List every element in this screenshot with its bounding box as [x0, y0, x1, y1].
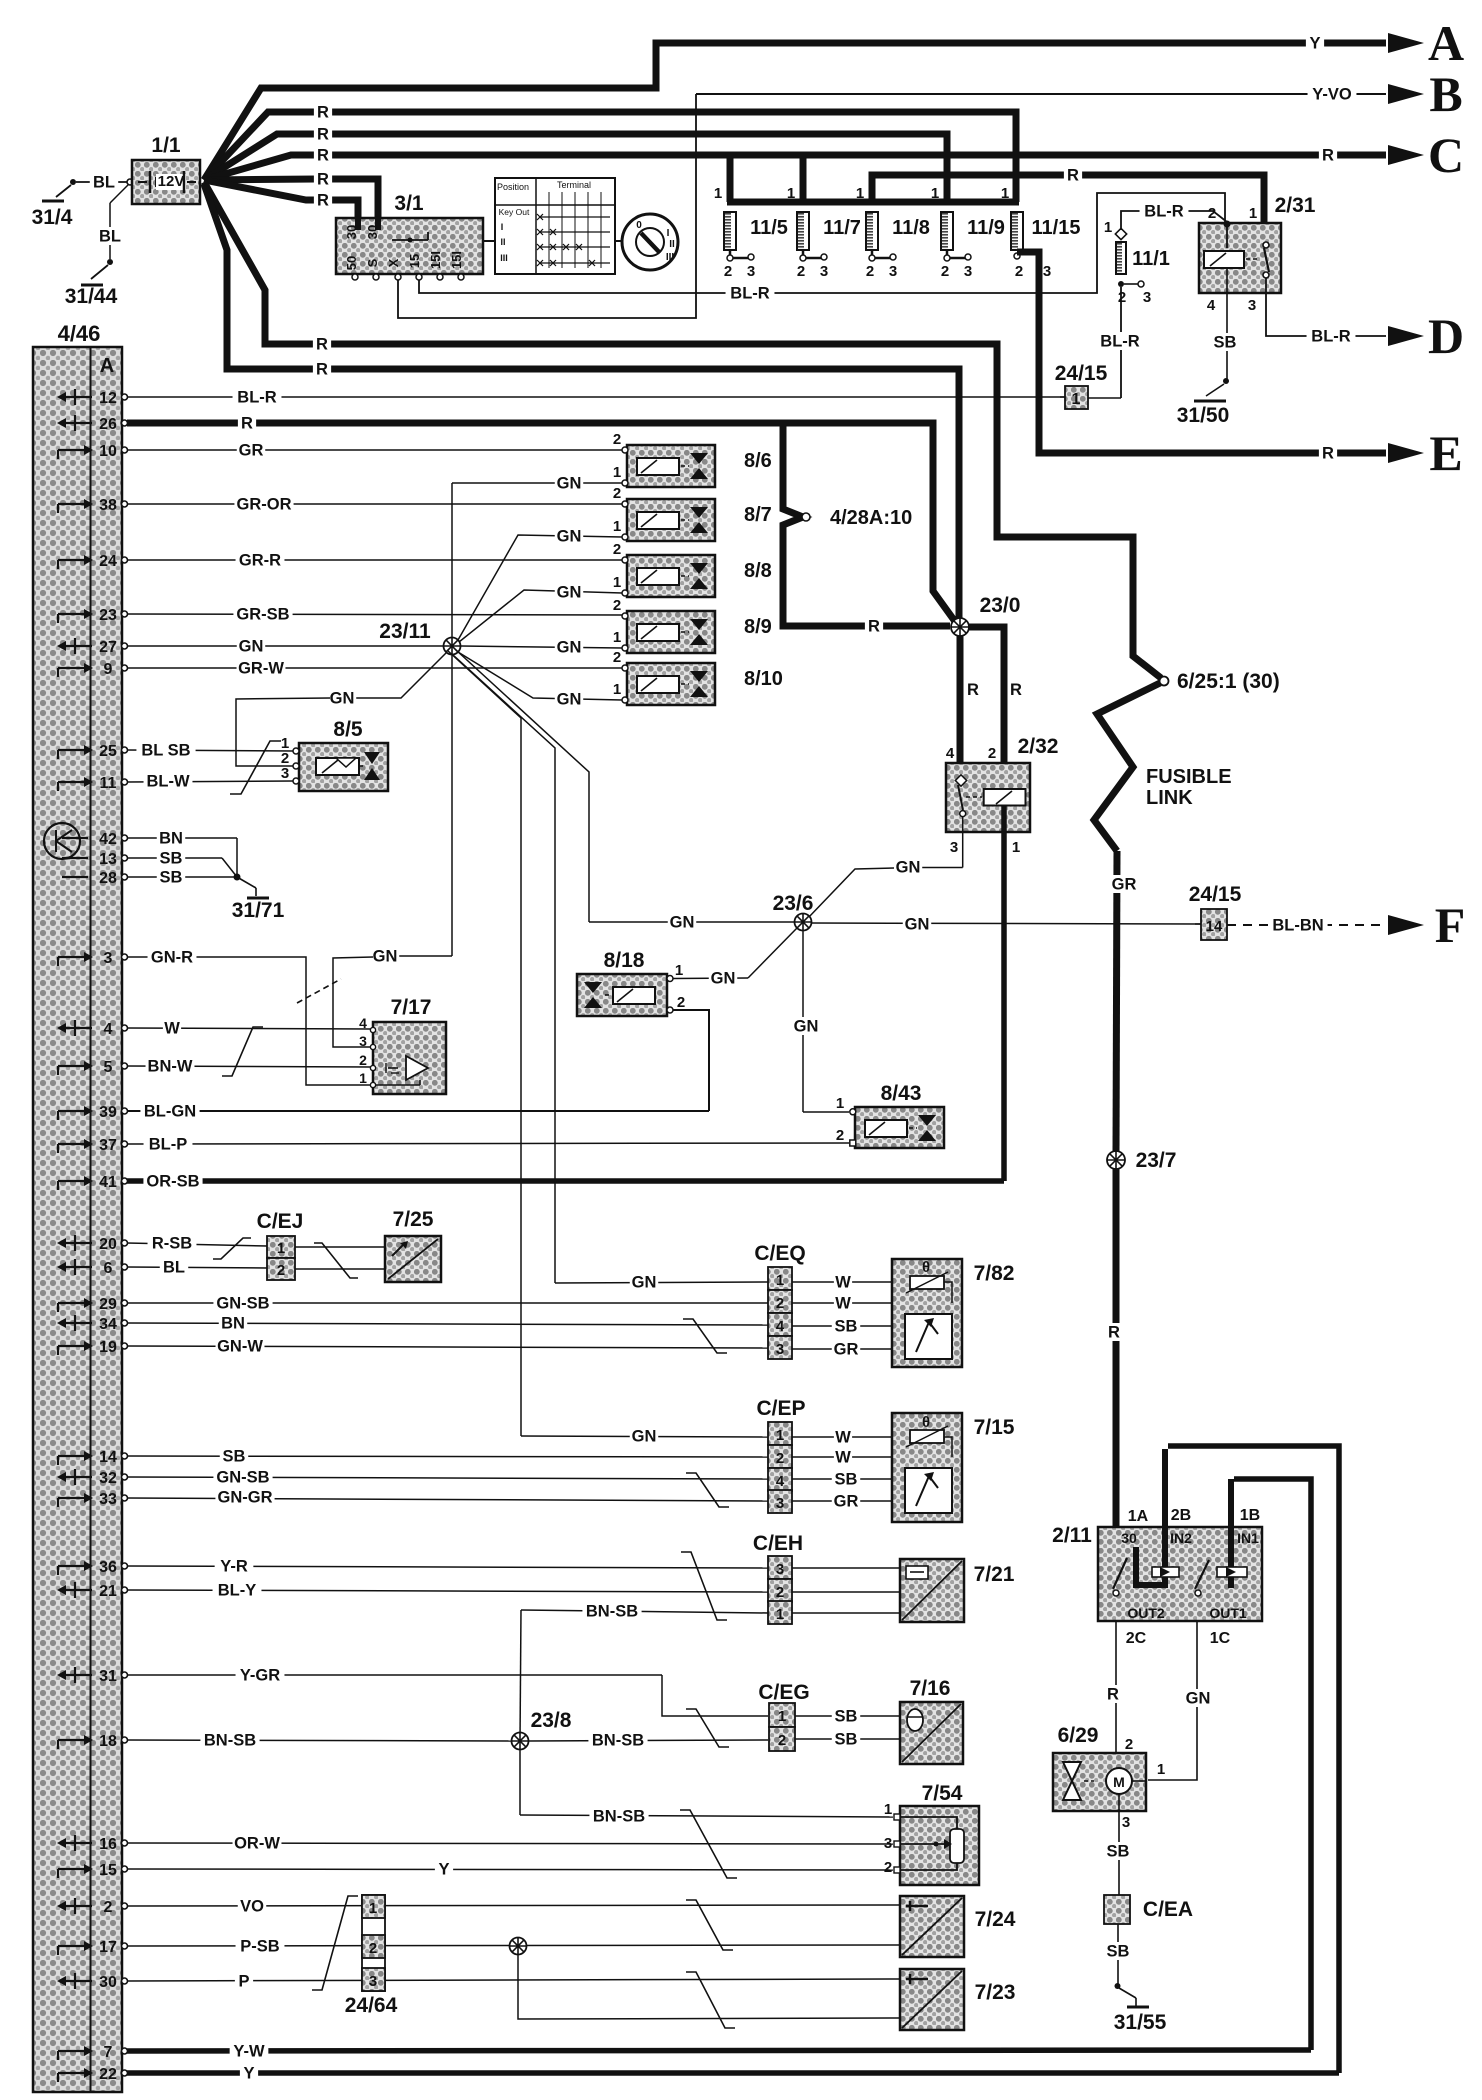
svg-text:4/28A:10: 4/28A:10 — [830, 507, 912, 529]
svg-text:7/21: 7/21 — [974, 1563, 1015, 1586]
connector slash before C/EG — [686, 1709, 729, 1747]
svg-text:BL-Y: BL-Y — [218, 1582, 257, 1600]
svg-text:FUSIBLE: FUSIBLE — [1146, 766, 1232, 788]
svg-text:7/25: 7/25 — [393, 1208, 434, 1231]
svg-text:8/5: 8/5 — [333, 718, 363, 741]
svg-text:2: 2 — [724, 263, 732, 280]
wire R to ignition switch 3/1 terminal 30a — [204, 180, 358, 218]
svg-text:23/7: 23/7 — [1136, 1149, 1177, 1172]
svg-text:1: 1 — [1157, 1761, 1165, 1778]
svg-text:2: 2 — [613, 431, 621, 448]
svg-text:BL-R: BL-R — [730, 285, 769, 303]
junction 23/8 — [512, 1733, 529, 1750]
wire riser to connector 4/28A:10 — [783, 423, 950, 626]
svg-text:16: 16 — [99, 1836, 117, 1853]
svg-text:6: 6 — [104, 1260, 113, 1277]
svg-text:C/EA: C/EA — [1143, 1898, 1193, 1921]
svg-text:GN: GN — [905, 916, 930, 934]
svg-text:OUT1: OUT1 — [1209, 1605, 1247, 1621]
switch 7/24 — [900, 1896, 964, 1957]
wire BN-SB connector pin 18 to junction 23/8 — [127, 1740, 512, 1741]
wire SB from relay 2/31 terminal 4 to ground 31/50 — [1226, 268, 1228, 380]
wire Y-R connector pin 36 to connector C/EH pin 3 — [127, 1566, 768, 1568]
svg-text:GN: GN — [711, 970, 736, 988]
svg-text:1: 1 — [613, 464, 621, 481]
svg-text:2: 2 — [776, 1450, 784, 1467]
svg-text:X: X — [386, 258, 401, 267]
svg-text:2: 2 — [1125, 1736, 1133, 1753]
svg-text:11/9: 11/9 — [967, 217, 1005, 239]
wire GR connector pin 10 to relay 8/6 terminal 2 — [127, 449, 622, 451]
wire BN-SB riser from junction 23/8 up — [520, 1610, 521, 1741]
wire GN junction 23/11 to relay 8/9 terminal 1 — [461, 646, 622, 648]
svg-text:41: 41 — [99, 1174, 117, 1191]
svg-text:19: 19 — [99, 1339, 117, 1356]
svg-text:R: R — [317, 171, 329, 189]
wire GN junction 23/6 down to relay 8/43 terminal 1 — [802, 931, 804, 1112]
svg-text:II: II — [500, 237, 505, 247]
svg-text:BL-R: BL-R — [1311, 328, 1350, 346]
svg-text:R: R — [868, 618, 880, 636]
svg-text:C/EQ: C/EQ — [754, 1242, 805, 1265]
svg-text:SB: SB — [835, 1318, 858, 1336]
svg-text:3: 3 — [104, 950, 113, 967]
wire BN-SB junction 23/8 riser to motor 7/54 terminal 1 — [519, 1749, 521, 1815]
svg-text:BL SB: BL SB — [141, 742, 190, 760]
key position table — [495, 178, 615, 274]
svg-text:Y-R: Y-R — [220, 1558, 248, 1576]
svg-text:23/8: 23/8 — [531, 1709, 572, 1732]
svg-text:13: 13 — [99, 851, 117, 868]
svg-text:LINK: LINK — [1146, 787, 1193, 809]
svg-text:3: 3 — [1043, 263, 1051, 280]
svg-text:Y: Y — [1309, 35, 1320, 53]
wire GN-SB connector pin 29 to connector C/EQ pin 2 — [127, 1302, 768, 1304]
svg-text:GN: GN — [557, 528, 582, 546]
wire BL-R from connector 4/46 pin 12 — [127, 396, 1065, 398]
wire BL battery to 31/4 — [76, 181, 127, 183]
wire riser junction P-SB to switch 7/23 — [518, 1954, 900, 2019]
svg-text:7/16: 7/16 — [910, 1677, 951, 1700]
svg-text:R: R — [316, 361, 328, 379]
svg-text:11/15: 11/15 — [1032, 217, 1081, 239]
wire BL-R from 3/1 terminal 15 — [419, 193, 1225, 293]
svg-text:1: 1 — [613, 518, 621, 535]
arrow C — [1388, 145, 1424, 165]
svg-text:8/43: 8/43 — [881, 1082, 922, 1105]
wire BL-R riser to relay 2/31 terminal 2 — [420, 294, 1097, 296]
svg-text:1: 1 — [884, 1801, 892, 1818]
svg-text:1: 1 — [931, 185, 939, 202]
svg-text:Y-VO: Y-VO — [1312, 86, 1352, 104]
ignition switch 3/1 bottom pins — [352, 274, 358, 280]
wire BL-P connector pin 37 to relay 8/43 terminal 2 — [127, 1143, 849, 1144]
svg-text:30: 30 — [99, 1974, 117, 1991]
wires C/EH to switch 7/21 — [792, 1567, 900, 1569]
svg-text:D: D — [1428, 308, 1464, 364]
svg-text:W: W — [835, 1274, 851, 1292]
svg-text:23/0: 23/0 — [980, 594, 1021, 617]
wire GN riser to connector C/EQ pin 1 — [555, 1282, 768, 1283]
svg-text:W: W — [164, 1020, 180, 1038]
svg-text:2: 2 — [866, 263, 874, 280]
svg-text:Position: Position — [497, 182, 529, 192]
svg-text:1B: 1B — [1240, 1507, 1260, 1524]
svg-text:BN-SB: BN-SB — [592, 1732, 644, 1750]
svg-text:2: 2 — [104, 1899, 113, 1916]
wire R from connector 4/46 pin 26 to junction 23/0 — [127, 423, 959, 627]
wire R junction 23/0 to relay 2/32 terminal 4 — [957, 636, 964, 778]
wire SB fan motor 6/29 terminal 3 to connector C/EA — [1118, 1794, 1120, 1895]
svg-text:11/1: 11/1 — [1132, 248, 1170, 270]
connector slash between C/EJ and 7/25 — [314, 1243, 358, 1278]
switch 7/23 — [900, 1969, 964, 2030]
svg-text:23/11: 23/11 — [379, 620, 431, 643]
svg-text:2: 2 — [884, 1859, 892, 1876]
svg-text:SB: SB — [835, 1708, 858, 1726]
wire GN junction 23/11 to junction 23/6 riser — [456, 650, 589, 922]
wire GN relay 2/32 terminal 3 to junction 23/6 — [962, 816, 964, 868]
svg-text:BL-W: BL-W — [146, 773, 189, 791]
wire GN-W connector pin 19 to connector C/EQ pin 3 — [127, 1346, 768, 1348]
wire GN relay 2/11 OUT1 to fan motor 6/29 terminal 1 — [1148, 1622, 1197, 1780]
wires C/EP to sensor 7/15 — [792, 1436, 910, 1438]
svg-text:2: 2 — [613, 541, 621, 558]
svg-text:GN-W: GN-W — [217, 1338, 263, 1356]
wire GN relay 8/18 terminal 1 to junction 23/6 — [673, 977, 748, 980]
svg-text:31/71: 31/71 — [232, 899, 285, 922]
connector slash before C/EP — [686, 1473, 729, 1507]
wire R to ignition switch 3/1 terminal 30b — [204, 179, 378, 218]
svg-text:4: 4 — [776, 1473, 785, 1490]
svg-text:3: 3 — [776, 1561, 784, 1578]
svg-text:R: R — [316, 336, 328, 354]
svg-text:C/EG: C/EG — [758, 1681, 809, 1704]
svg-text:SB: SB — [160, 850, 183, 868]
wire GN junction 23/11 to relay 8/6 terminal 1 — [451, 483, 453, 638]
svg-text:W: W — [835, 1449, 851, 1467]
svg-text:2: 2 — [776, 1295, 784, 1312]
wire GN junction 23/11 to connector C/EQ riser — [452, 654, 555, 1283]
wire BN-SB riser to connector C/EH pin 1 — [521, 1610, 768, 1613]
svg-text:R: R — [967, 681, 979, 699]
svg-text:2: 2 — [613, 485, 621, 502]
switch 7/21 — [900, 1559, 964, 1622]
svg-text:3: 3 — [359, 1033, 367, 1049]
wire GN junction 23/6 left to riser — [589, 921, 795, 923]
fan motor 6/29 — [1053, 1753, 1146, 1811]
wire GN-R connector pin 3 to amplifier 7/17 terminal 1 — [127, 956, 305, 958]
svg-text:1: 1 — [714, 185, 722, 202]
wire GR-R connector pin 24 to relay 8/8 terminal 2 — [127, 559, 622, 561]
svg-text:BL-BN: BL-BN — [1272, 917, 1323, 935]
svg-text:1: 1 — [613, 574, 621, 591]
svg-text:11: 11 — [100, 775, 117, 792]
wire R feed fuse 11/15 — [204, 112, 1016, 202]
wire BN-SB junction 23/8 to connector C/EG pin 2 — [528, 1740, 768, 1741]
svg-text:3: 3 — [820, 263, 828, 280]
wire GR-OR connector pin 38 to relay 8/7 terminal 2 — [127, 503, 622, 505]
svg-text:1A: 1A — [1128, 1508, 1149, 1525]
svg-text:M: M — [1113, 1774, 1125, 1790]
svg-text:8/8: 8/8 — [744, 560, 772, 582]
svg-text:GN: GN — [373, 948, 398, 966]
svg-text:30: 30 — [365, 225, 380, 239]
svg-text:14: 14 — [99, 1449, 117, 1466]
svg-text:R: R — [1322, 445, 1334, 463]
svg-text:GN-SB: GN-SB — [216, 1469, 269, 1487]
svg-text:5: 5 — [104, 1059, 113, 1076]
svg-text:R: R — [1107, 1686, 1119, 1704]
svg-text:1: 1 — [277, 1240, 285, 1257]
svg-text:8/6: 8/6 — [744, 450, 772, 472]
svg-text:GN: GN — [632, 1274, 657, 1292]
ground 31/4 — [70, 179, 76, 185]
svg-text:2: 2 — [776, 1584, 784, 1601]
svg-text:8/10: 8/10 — [744, 668, 783, 690]
svg-text:12V: 12V — [158, 173, 185, 190]
svg-text:32: 32 — [99, 1470, 117, 1487]
junction 23/7 — [1107, 1151, 1125, 1169]
svg-text:2B: 2B — [1171, 1507, 1191, 1524]
ground 31/71 — [234, 874, 241, 881]
svg-text:2: 2 — [1208, 205, 1216, 222]
svg-text:1: 1 — [359, 1070, 367, 1086]
svg-text:BL-R: BL-R — [1100, 333, 1139, 351]
svg-text:24/15: 24/15 — [1055, 362, 1108, 385]
wire SB connector C/EA to ground 31/55 — [1117, 1924, 1119, 1984]
svg-text:OR-SB: OR-SB — [146, 1173, 199, 1191]
svg-text:VO: VO — [240, 1898, 264, 1916]
wire GN junction 23/11 down to amplifier 7/17 terminal 3 — [451, 654, 453, 956]
wire SB connector pin 14 to connector C/EP pin 2 — [127, 1456, 768, 1457]
svg-text:18: 18 — [99, 1733, 117, 1750]
arrow B — [1388, 84, 1424, 104]
connector slash before 7/24 — [686, 1900, 733, 1950]
svg-text:0: 0 — [636, 220, 642, 231]
svg-text:7/82: 7/82 — [974, 1262, 1015, 1285]
svg-text:38: 38 — [99, 497, 117, 514]
svg-text:3: 3 — [950, 839, 958, 856]
connector slash before 7/54 — [680, 1810, 737, 1878]
svg-text:BN-SB: BN-SB — [586, 1603, 638, 1621]
svg-text:SB: SB — [160, 869, 183, 887]
wire Y connector pin 15 to motor 7/54 terminal 2 — [127, 1869, 893, 1870]
svg-text:I: I — [667, 228, 670, 239]
connector slash before 24/64 — [312, 1896, 358, 1990]
wires C/EJ to 7/25 — [295, 1246, 385, 1248]
svg-text:SB: SB — [835, 1731, 858, 1749]
relay 8/10 — [627, 663, 715, 705]
wire BL-BN dashed to arrow F — [1227, 924, 1386, 926]
svg-text:BL-P: BL-P — [149, 1136, 188, 1154]
svg-text:1: 1 — [787, 185, 795, 202]
wire R riser to 23/0 branch upper — [204, 182, 1161, 678]
svg-text:Key Out: Key Out — [499, 207, 530, 217]
svg-text:7/54: 7/54 — [922, 1782, 963, 1805]
svg-text:24: 24 — [99, 553, 117, 570]
svg-text:9: 9 — [104, 661, 113, 678]
svg-text:1: 1 — [1104, 219, 1112, 236]
svg-text:GN: GN — [557, 639, 582, 657]
connector slash at 8/5 — [230, 741, 281, 794]
svg-text:2: 2 — [1118, 289, 1126, 306]
svg-text:III: III — [500, 253, 508, 263]
fuse supply bus — [727, 199, 1019, 206]
svg-text:GR: GR — [239, 442, 264, 460]
svg-text:A: A — [1428, 15, 1464, 71]
svg-text:SB: SB — [223, 1448, 246, 1466]
svg-text:4: 4 — [1207, 297, 1216, 314]
svg-text:4/46: 4/46 — [58, 321, 101, 346]
svg-text:II: II — [669, 239, 675, 250]
svg-text:2: 2 — [941, 263, 949, 280]
svg-text:1: 1 — [776, 1272, 784, 1289]
ground 31/50 — [1223, 378, 1229, 384]
svg-text:GN-GR: GN-GR — [218, 1489, 273, 1507]
fuse 11/1 — [1115, 228, 1126, 239]
wire GN riser to connector C/EP pin 1 — [521, 1436, 768, 1437]
svg-text:C/EP: C/EP — [756, 1397, 805, 1420]
wire Y-GR connector pin 31 to connector C/EG pin 1 — [127, 1674, 662, 1676]
wire BL connector pin 6 to connector C/EJ pin 2 — [127, 1267, 267, 1268]
svg-text:2: 2 — [1015, 263, 1023, 280]
svg-text:3: 3 — [884, 1835, 892, 1852]
svg-text:3: 3 — [1122, 1814, 1130, 1831]
svg-text:17: 17 — [99, 1939, 117, 1956]
relay 8/8 — [627, 555, 715, 597]
key cylinder — [483, 240, 495, 242]
svg-text:2: 2 — [797, 263, 805, 280]
svg-text:2/31: 2/31 — [1275, 194, 1316, 217]
svg-text:OR-W: OR-W — [234, 1835, 280, 1853]
connector slash before C/EH — [681, 1552, 727, 1620]
wire GN junction 23/6 to connector 24/15 pin 14 — [811, 923, 1201, 924]
svg-text:GN: GN — [1186, 1690, 1211, 1708]
relay 2/32 — [946, 763, 1030, 832]
wire OR-SB connector pin 41 to relay 2/32 terminal 1 — [127, 1178, 1004, 1184]
svg-text:BL-R: BL-R — [1144, 203, 1183, 221]
relay 2/11 — [1098, 1527, 1262, 1621]
svg-text:7/24: 7/24 — [975, 1908, 1016, 1931]
svg-text:37: 37 — [99, 1137, 117, 1154]
wire BL-Y connector pin 21 to connector C/EH pin 2 — [127, 1590, 768, 1592]
svg-text:SB: SB — [835, 1471, 858, 1489]
svg-text:GN: GN — [896, 859, 921, 877]
svg-text:R: R — [1322, 147, 1334, 165]
battery 1/1 — [132, 160, 200, 204]
junction 23/6 — [795, 914, 812, 931]
svg-text:23/6: 23/6 — [773, 892, 814, 915]
sensor 7/15 — [892, 1413, 962, 1522]
svg-text:1: 1 — [1001, 185, 1009, 202]
svg-text:33: 33 — [99, 1491, 117, 1508]
svg-text:BL-GN: BL-GN — [144, 1103, 196, 1121]
wire BN connector pin 42 to ground 31/71 — [127, 837, 237, 839]
svg-text:BN: BN — [221, 1315, 245, 1333]
svg-text:I: I — [501, 222, 504, 232]
svg-text:2: 2 — [988, 745, 996, 762]
wire GR fusible link to junction 23/7 — [1116, 851, 1117, 1151]
wire R relay 2/11 OUT2 to fan motor 6/29 terminal 2 — [1115, 1621, 1117, 1753]
wire BL-R from relay 2/31 terminal 3 to arrow D — [1266, 293, 1386, 336]
svg-text:C: C — [1428, 127, 1464, 183]
svg-text:BL: BL — [163, 1259, 185, 1277]
svg-text:14: 14 — [1206, 918, 1223, 935]
svg-text:15I: 15I — [449, 251, 464, 269]
wire GN junction 23/11 to relay 8/10 terminal 1 — [458, 652, 622, 700]
svg-text:BL: BL — [93, 174, 115, 192]
svg-text:Y-W: Y-W — [233, 2043, 265, 2061]
svg-text:8/7: 8/7 — [744, 504, 772, 526]
svg-text:39: 39 — [99, 1104, 117, 1121]
svg-text:1: 1 — [836, 1095, 844, 1112]
wire R drop to fuse 11/5 — [727, 155, 734, 202]
wire R to arrow C — [204, 155, 1386, 180]
svg-text:P: P — [238, 1973, 249, 1991]
wire R junction 23/7 to relay 2/11 terminal 30 — [1113, 1169, 1120, 1590]
svg-text:3: 3 — [964, 263, 972, 280]
svg-text:W: W — [835, 1429, 851, 1447]
relay 8/6 — [627, 445, 715, 487]
svg-text:1: 1 — [778, 1708, 786, 1725]
svg-text:R: R — [1108, 1324, 1120, 1342]
lamp 7/25 — [385, 1236, 441, 1282]
junction 23/11 — [444, 638, 461, 655]
svg-text:GR: GR — [1112, 876, 1137, 894]
svg-text:2: 2 — [836, 1127, 844, 1144]
svg-text:29: 29 — [99, 1296, 117, 1313]
wire BL-R from fuse 11/1 terminal 1 to relay 2/31 terminal 2 — [1121, 211, 1227, 230]
svg-text:R: R — [317, 147, 329, 165]
svg-text:GR-R: GR-R — [239, 552, 281, 570]
svg-text:4: 4 — [946, 745, 955, 762]
svg-text:6/29: 6/29 — [1058, 1724, 1099, 1747]
svg-text:4: 4 — [776, 1318, 785, 1335]
svg-text:1: 1 — [856, 185, 864, 202]
svg-text:1: 1 — [776, 1606, 784, 1623]
relay 8/18 — [577, 974, 667, 1016]
svg-text:42: 42 — [99, 831, 117, 848]
svg-text:GR: GR — [834, 1493, 859, 1511]
wire OR-W connector pin 16 to motor 7/54 terminal 3 — [127, 1843, 893, 1844]
wire R feed fuse 11/9 — [204, 134, 947, 202]
wire GN-GR connector pin 33 to connector C/EP pin 3 — [127, 1498, 768, 1501]
wire W connector pin 4 to amplifier 7/17 terminal 4 — [127, 1028, 371, 1029]
svg-text:3: 3 — [776, 1495, 784, 1512]
svg-text:GR-SB: GR-SB — [236, 606, 289, 624]
svg-text:BL-R: BL-R — [237, 389, 276, 407]
svg-text:4: 4 — [359, 1015, 367, 1031]
wire BN-W connector pin 5 to amplifier 7/17 terminal 2 — [127, 1066, 371, 1067]
wire R drop to fuse 11/7 — [800, 155, 807, 202]
connector slash on R-SB — [213, 1238, 251, 1259]
svg-text:23: 23 — [99, 607, 117, 624]
svg-text:1: 1 — [613, 629, 621, 646]
svg-text:BN: BN — [159, 830, 183, 848]
svg-text:R: R — [1010, 681, 1022, 699]
svg-text:R: R — [241, 415, 253, 433]
svg-text:Y-GR: Y-GR — [240, 1667, 280, 1685]
relay 8/7 — [627, 499, 715, 541]
wire VO connector pin 2 to switch 7/24 — [127, 1905, 900, 1906]
wire Y-W connector pin 7 to relay 2/11 IN1 — [127, 2050, 1311, 2051]
ground 31/44 — [107, 259, 113, 265]
svg-text:GN: GN — [794, 1018, 819, 1036]
wire Y connector pin 22 to relay 2/11 IN2 — [127, 2070, 1339, 2076]
clock symbol on connector 4/46 — [44, 823, 80, 859]
svg-text:BN-SB: BN-SB — [204, 1732, 256, 1750]
